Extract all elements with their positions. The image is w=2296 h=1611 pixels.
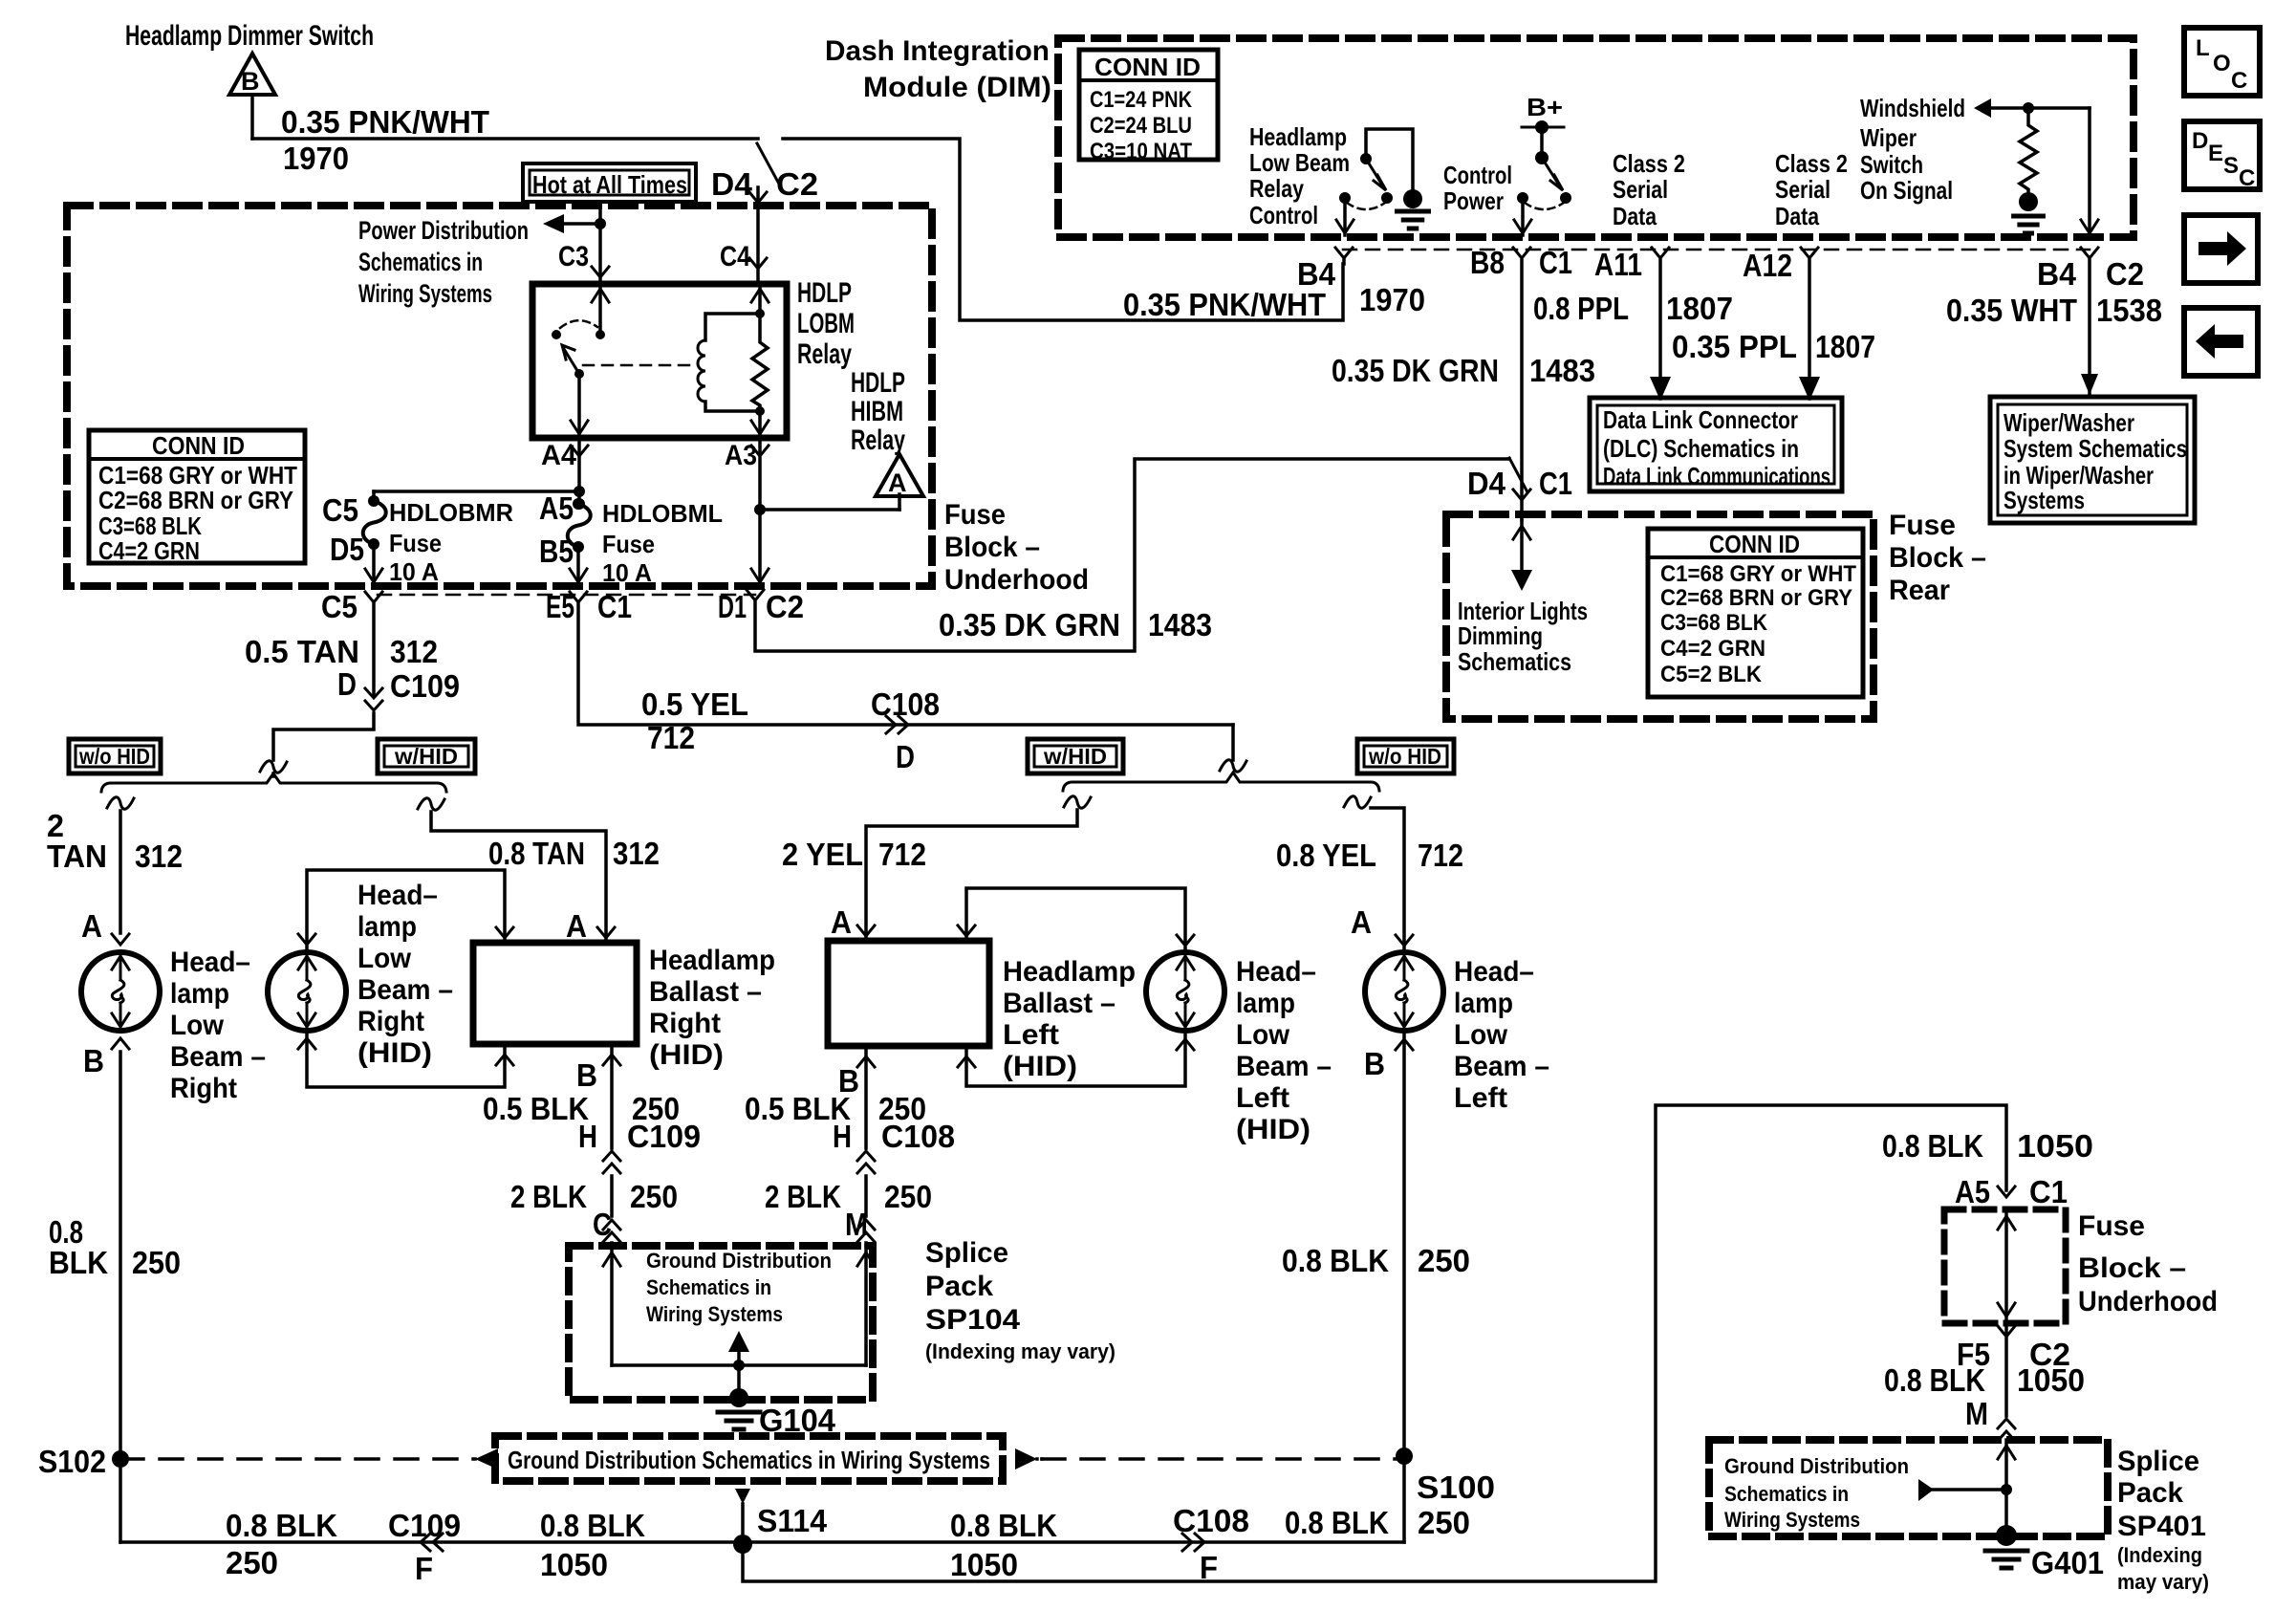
svg-text:Headlamp Dimmer Switch: Headlamp Dimmer Switch <box>125 20 374 52</box>
svg-text:Data Link Connector: Data Link Connector <box>1603 405 1798 434</box>
dashed box: Fuse Block - Rear <box>1446 514 1874 719</box>
svg-text:Head–: Head– <box>1454 956 1534 988</box>
svg-text:312: 312 <box>390 634 438 669</box>
svg-text:Schematics in: Schematics in <box>358 248 483 276</box>
svg-text:C1: C1 <box>1539 466 1572 501</box>
svg-text:0.35 PNK/WHT: 0.35 PNK/WHT <box>1123 287 1326 322</box>
wire: triangle B stem <box>250 95 254 139</box>
svg-text:1970: 1970 <box>283 141 349 176</box>
svg-text:lamp: lamp <box>357 911 417 943</box>
svg-text:Left: Left <box>1454 1082 1507 1114</box>
option brace (left headlamps) <box>1063 773 1379 791</box>
svg-text:w/o HID: w/o HID <box>1368 744 1441 769</box>
svg-text:lamp: lamp <box>1236 988 1295 1019</box>
svg-text:C3=68 BLK: C3=68 BLK <box>1660 610 1768 636</box>
headlamp ballast - left box <box>828 941 989 1046</box>
splice S100 <box>1396 1448 1413 1465</box>
headlamp low beam right (HID) bulb <box>268 952 346 1031</box>
arrow to Power Distribution <box>543 214 564 233</box>
svg-text:C3=10 NAT: C3=10 NAT <box>1090 139 1192 164</box>
svg-text:lamp: lamp <box>170 978 229 1010</box>
ballast right top-left pin to HID bulb <box>496 927 513 938</box>
svg-text:A: A <box>566 908 587 944</box>
pin E5/C1 <box>570 592 587 602</box>
svg-text:250: 250 <box>1418 1505 1470 1540</box>
svg-text:Module (DIM): Module (DIM) <box>863 72 1051 103</box>
wire: 0.5 BLK 250 (left) <box>864 1046 868 1148</box>
svg-text:Fuse: Fuse <box>389 529 442 557</box>
svg-text:Block –: Block – <box>944 532 1040 563</box>
svg-text:0.5 BLK: 0.5 BLK <box>483 1091 589 1126</box>
svg-text:Fuse: Fuse <box>2078 1210 2145 1242</box>
pin A11 <box>1652 248 1669 258</box>
pin B8/C1 (DIM) <box>1513 248 1530 258</box>
relay resistor (parallel) <box>752 314 768 411</box>
svg-text:Ballast –: Ballast – <box>649 976 762 1008</box>
svg-text:Ground Distribution: Ground Distribution <box>1724 1454 1909 1478</box>
relay switch fixed contact <box>552 330 561 339</box>
windshield wiper signal arrow <box>1974 98 1991 118</box>
wire: A3 down to block edge <box>758 438 762 586</box>
svg-text:C2: C2 <box>2106 256 2144 292</box>
svg-text:Wiring Systems: Wiring Systems <box>646 1302 783 1326</box>
svg-text:(HID): (HID) <box>649 1039 724 1071</box>
svg-text:Head–: Head– <box>170 947 250 978</box>
wire: A12 0.35 PPL to DLC <box>1808 258 1811 399</box>
svg-text:Beam –: Beam – <box>170 1041 266 1073</box>
svg-text:CONN ID: CONN ID <box>152 431 245 460</box>
svg-text:(HID): (HID) <box>357 1037 432 1069</box>
svg-text:H: H <box>833 1119 852 1154</box>
svg-text:2 BLK: 2 BLK <box>510 1179 587 1214</box>
ballast left top-right pin to HID bulb <box>958 925 975 936</box>
svg-text:1970: 1970 <box>1359 282 1425 317</box>
svg-text:C1=24 PNK: C1=24 PNK <box>1090 87 1193 113</box>
pin B headlamp right <box>112 1038 129 1049</box>
svg-text:C2=68 BRN or GRY: C2=68 BRN or GRY <box>98 486 293 514</box>
svg-text:A12: A12 <box>1743 248 1792 283</box>
svg-text:B: B <box>241 67 260 96</box>
pin B4/C2 (right) <box>2081 248 2098 258</box>
wire: wiper signal to B4/C2 <box>2088 108 2091 235</box>
pin B4 (DIM) <box>1335 248 1353 258</box>
svg-text:(Indexing: (Indexing <box>2117 1543 2202 1567</box>
relay box: HDLP LOBM Relay <box>532 284 787 438</box>
svg-text:SP401: SP401 <box>2117 1511 2206 1542</box>
svg-text:HIBM: HIBM <box>851 396 903 427</box>
wire: 0.5 TAN down <box>372 602 376 695</box>
legend box DESC <box>2184 121 2260 189</box>
wire: B headlamp right down to S102 <box>119 1052 122 1542</box>
svg-text:C4=2 GRN: C4=2 GRN <box>1660 636 1765 662</box>
svg-text:Power Distribution: Power Distribution <box>358 216 529 245</box>
relay coil output to A3 <box>758 411 762 438</box>
svg-text:0.35 DK GRN: 0.35 DK GRN <box>1332 353 1499 388</box>
option box: w/HID (left) <box>1028 739 1123 773</box>
option box: w/HID <box>378 739 475 773</box>
svg-text:Fuse: Fuse <box>602 530 655 558</box>
dashed box: Splice Pack SP401 <box>1709 1440 2108 1536</box>
svg-text:Right: Right <box>170 1073 237 1104</box>
svg-text:Left: Left <box>1236 1082 1289 1114</box>
wire: PNK/WHT right segment to DIM B4 <box>783 139 1343 320</box>
dashed box: Ground Distribution Schematics in Wiring Systems <box>495 1436 1003 1481</box>
pin A12 <box>1801 248 1818 258</box>
svg-text:Dimming: Dimming <box>1458 621 1543 650</box>
svg-text:Control: Control <box>1249 201 1318 229</box>
arrow to S100 <box>1015 1448 1037 1469</box>
svg-text:2 YEL: 2 YEL <box>782 837 863 872</box>
headlamp low beam - left bulb <box>1365 952 1443 1031</box>
svg-text:Control: Control <box>1443 161 1512 189</box>
svg-text:Head–: Head– <box>1236 956 1316 988</box>
svg-text:0.35 WHT: 0.35 WHT <box>1946 293 2077 328</box>
svg-text:C1: C1 <box>1539 245 1572 280</box>
svg-text:Block –: Block – <box>2078 1252 2186 1284</box>
inline connector D4/C1 slash <box>1509 458 1527 490</box>
ground G401 <box>1996 1525 2017 1546</box>
svg-text:Underhood: Underhood <box>944 564 1089 596</box>
pin F5/C2 <box>1998 1326 2015 1337</box>
splice S114 <box>733 1535 752 1554</box>
wire: w/HID branch (0.8 TAN 312) <box>418 798 444 810</box>
pin B ballast left <box>857 1056 875 1067</box>
wire: A11 0.8 PPL to DLC <box>1658 258 1662 399</box>
svg-text:312: 312 <box>613 836 660 871</box>
svg-text:Low: Low <box>170 1010 225 1041</box>
wire: 0.35 PNK/WHT horizontal run <box>252 137 758 141</box>
SP401 internal wire <box>2004 1440 2008 1530</box>
svg-text:(Indexing may vary): (Indexing may vary) <box>925 1339 1116 1363</box>
svg-text:Left: Left <box>1003 1019 1059 1051</box>
option box: w/o HID (left) <box>1357 739 1454 773</box>
svg-text:Systems: Systems <box>2004 486 2085 514</box>
svg-text:Data: Data <box>1613 202 1657 230</box>
svg-text:B: B <box>83 1043 104 1078</box>
svg-text:L: L <box>2196 35 2210 61</box>
headlamp low beam - right bulb <box>81 952 160 1031</box>
svg-text:M: M <box>845 1207 868 1242</box>
svg-text:Pack: Pack <box>2117 1477 2183 1509</box>
svg-text:may vary): may vary) <box>2117 1570 2209 1594</box>
svg-text:(HID): (HID) <box>1236 1114 1310 1145</box>
headlamp ballast - right box <box>473 943 637 1044</box>
interior lights dimming arrow <box>1520 520 1524 570</box>
svg-text:Low: Low <box>1236 1019 1290 1051</box>
svg-text:1050: 1050 <box>2017 1128 2093 1164</box>
wire: HID right bulb return to ballast <box>298 1038 315 1049</box>
svg-text:712: 712 <box>1418 838 1463 873</box>
svg-text:System Schematics: System Schematics <box>2004 434 2187 463</box>
svg-text:S114: S114 <box>757 1503 828 1538</box>
svg-text:Fuse: Fuse <box>944 499 1006 531</box>
conn id table (rear) <box>1648 529 1863 697</box>
svg-text:C2: C2 <box>776 166 818 202</box>
svg-text:w/o HID: w/o HID <box>78 744 150 769</box>
svg-text:Headlamp: Headlamp <box>1249 122 1347 151</box>
svg-text:D: D <box>896 739 915 774</box>
svg-text:A: A <box>81 908 102 944</box>
svg-text:Beam –: Beam – <box>357 974 453 1006</box>
svg-text:B+: B+ <box>1527 93 1563 121</box>
svg-text:C3: C3 <box>558 241 589 272</box>
svg-text:712: 712 <box>878 837 926 872</box>
dashed box: Fuse Block - Underhood (small) <box>1944 1209 2066 1323</box>
svg-text:A5: A5 <box>539 490 574 526</box>
svg-text:C5: C5 <box>321 589 357 624</box>
conn id table (DIM) <box>1079 50 1218 160</box>
svg-text:Schematics in: Schematics in <box>646 1275 771 1299</box>
svg-text:0.8 BLK: 0.8 BLK <box>1884 1362 1985 1398</box>
svg-text:Power: Power <box>1443 186 1504 215</box>
svg-text:0.8 BLK: 0.8 BLK <box>1882 1128 1983 1164</box>
svg-text:Hot at All Times: Hot at All Times <box>532 170 687 199</box>
wire: A4 to fuses <box>577 438 581 504</box>
svg-text:Ballast –: Ballast – <box>1003 988 1116 1019</box>
svg-text:2 BLK: 2 BLK <box>765 1179 841 1214</box>
svg-text:10 A: 10 A <box>602 558 652 587</box>
wire: 0.5 YEL 712 from E5 <box>578 602 1233 725</box>
wire: HID left bulb return to ballast <box>1177 1039 1194 1050</box>
svg-text:Beam –: Beam – <box>1454 1051 1549 1082</box>
svg-text:On Signal: On Signal <box>1860 176 1953 205</box>
svg-text:1538: 1538 <box>2096 293 2162 328</box>
svg-text:Fuse: Fuse <box>1889 510 1956 541</box>
svg-text:C4: C4 <box>720 241 750 272</box>
relay coil branch from C4 <box>758 284 762 314</box>
wire: w/o HID left branch (0.8 YEL 712) <box>1344 796 1371 808</box>
svg-text:Wiring Systems: Wiring Systems <box>1724 1508 1860 1532</box>
svg-text:Wiper: Wiper <box>1860 123 1917 152</box>
svg-text:B: B <box>576 1057 597 1093</box>
svg-text:M: M <box>1965 1396 1988 1431</box>
wire: B5 to block edge <box>576 547 580 586</box>
svg-text:Pack: Pack <box>925 1271 993 1302</box>
wire: 0.8 BLK 250 (left headlamp return) <box>1402 1031 1406 1542</box>
svg-text:H: H <box>578 1119 597 1154</box>
svg-text:C5=2 BLK: C5=2 BLK <box>1660 662 1763 687</box>
box: Hot at All Times <box>523 163 696 202</box>
svg-text:0.8 BLK: 0.8 BLK <box>1285 1505 1389 1540</box>
svg-text:A: A <box>888 468 907 497</box>
svg-text:F: F <box>415 1551 433 1586</box>
svg-text:C: C <box>2231 68 2247 94</box>
conn id table (underhood) <box>89 430 305 563</box>
svg-text:C1=68 GRY or WHT: C1=68 GRY or WHT <box>1660 561 1856 587</box>
svg-text:0.5 TAN: 0.5 TAN <box>245 634 359 669</box>
svg-text:A11: A11 <box>1594 247 1642 282</box>
relay switch common feed (from C3) <box>598 284 602 335</box>
svg-text:(HID): (HID) <box>1003 1051 1077 1082</box>
connector row line (thin dashed) <box>378 594 755 597</box>
svg-text:Low: Low <box>357 943 412 974</box>
legend box arrow right <box>2184 215 2258 283</box>
wire: to w/o-w HID split (right side) <box>273 713 374 760</box>
svg-text:0.35 PNK/WHT: 0.35 PNK/WHT <box>281 104 489 140</box>
pin D1/C2 <box>747 590 764 600</box>
svg-text:1050: 1050 <box>2017 1362 2085 1398</box>
svg-text:C5: C5 <box>322 492 358 528</box>
wire: B8 output <box>1521 204 1525 235</box>
svg-text:Relay: Relay <box>1249 174 1304 203</box>
svg-text:B: B <box>1364 1046 1385 1081</box>
svg-text:A: A <box>831 904 852 940</box>
svg-text:250: 250 <box>630 1179 678 1214</box>
svg-text:0.8 BLK: 0.8 BLK <box>950 1508 1057 1543</box>
svg-text:A3: A3 <box>725 440 757 471</box>
box: Wiper/Washer System reference <box>1990 397 2195 523</box>
svg-text:lamp: lamp <box>1454 988 1513 1019</box>
svg-text:HDLOBML: HDLOBML <box>602 499 723 528</box>
svg-text:Low Beam: Low Beam <box>1249 148 1350 177</box>
svg-text:Ground Distribution Schematics: Ground Distribution Schematics in Wiring… <box>508 1446 990 1474</box>
ground rail (lower) to right riser <box>743 1105 2006 1581</box>
relay switch travel arc (dashed) <box>560 320 597 328</box>
svg-text:C1: C1 <box>597 589 632 624</box>
svg-text:0.8 BLK: 0.8 BLK <box>226 1508 337 1543</box>
wire: C3 feed from Hot at All Times <box>598 206 602 284</box>
svg-text:E5: E5 <box>546 589 574 624</box>
svg-text:LOBM: LOBM <box>797 308 855 339</box>
svg-text:w/HID: w/HID <box>1043 744 1107 769</box>
svg-text:C109: C109 <box>627 1119 701 1154</box>
svg-text:Underhood: Underhood <box>2078 1286 2218 1317</box>
svg-text:0.35 PPL: 0.35 PPL <box>1672 329 1797 364</box>
svg-text:1050: 1050 <box>950 1547 1018 1582</box>
svg-text:D4: D4 <box>1467 466 1506 501</box>
svg-text:0.8 PPL: 0.8 PPL <box>1533 291 1629 326</box>
svg-text:1483: 1483 <box>1529 353 1595 388</box>
option box: w/o HID <box>69 739 161 773</box>
svg-text:C108: C108 <box>871 686 940 722</box>
svg-text:Beam –: Beam – <box>1236 1051 1332 1082</box>
wire: D5 to block edge <box>372 544 376 586</box>
relay switch arm <box>564 349 579 374</box>
svg-text:Head–: Head– <box>357 880 438 911</box>
inline connector D4/C2 slash <box>757 143 781 187</box>
box: Data Link Connector reference <box>1590 398 1842 491</box>
dashed box: Dash Integration Module <box>1058 38 2134 237</box>
svg-text:B8: B8 <box>1470 245 1505 280</box>
svg-text:D: D <box>2192 128 2208 154</box>
svg-text:0.8 TAN: 0.8 TAN <box>488 836 585 871</box>
svg-text:S100: S100 <box>1417 1469 1495 1505</box>
svg-text:Class 2: Class 2 <box>1775 149 1848 178</box>
svg-text:250: 250 <box>1418 1243 1470 1278</box>
ground rail (upper) <box>120 1540 1404 1544</box>
svg-text:712: 712 <box>647 720 695 755</box>
svg-text:Dash Integration: Dash Integration <box>825 35 1050 67</box>
relay mechanical link (dashed) <box>583 364 690 367</box>
svg-text:250: 250 <box>884 1179 932 1214</box>
svg-text:G401: G401 <box>2031 1545 2104 1580</box>
svg-text:(DLC) Schematics in: (DLC) Schematics in <box>1603 434 1799 463</box>
svg-text:C2=68 BRN or GRY: C2=68 BRN or GRY <box>1660 585 1852 611</box>
svg-text:TAN: TAN <box>47 838 107 874</box>
svg-text:BLK: BLK <box>49 1245 108 1280</box>
legend box arrow left <box>2184 308 2258 376</box>
svg-text:Relay: Relay <box>797 338 852 370</box>
dashed box: Fuse Block - Underhood (large) <box>67 206 932 586</box>
dashed box: Splice Pack SP104 <box>569 1246 873 1400</box>
wire: down to left split <box>1231 725 1235 760</box>
svg-text:Schematics: Schematics <box>1458 647 1571 676</box>
relay switch output to A4 <box>577 374 581 438</box>
svg-text:HDLP: HDLP <box>851 367 905 399</box>
svg-text:O: O <box>2213 51 2231 76</box>
resistor: wiper switch pull-down <box>2020 108 2037 193</box>
svg-text:Relay: Relay <box>851 425 905 456</box>
ground G104 <box>737 1365 741 1394</box>
wire: B8 0.35 DK GRN 1483 <box>1520 258 1524 512</box>
svg-text:CONN ID: CONN ID <box>1094 53 1201 81</box>
svg-text:1483: 1483 <box>1148 607 1212 642</box>
fuse HDLOBML <box>573 498 584 510</box>
connector row dashed line (DIM C1/C2) <box>1343 249 2090 251</box>
SP104 branch arrow <box>728 1331 749 1352</box>
wire: w/HID left branch (2 YEL 712) <box>1064 796 1091 808</box>
svg-text:1807: 1807 <box>1666 291 1733 326</box>
svg-text:A4: A4 <box>541 440 576 471</box>
svg-text:Wiring Systems: Wiring Systems <box>358 279 492 308</box>
svg-text:Wiper/Washer: Wiper/Washer <box>2004 408 2134 437</box>
triangle A: HDLP HIBM Relay <box>760 508 899 512</box>
svg-text:Class 2: Class 2 <box>1613 149 1685 178</box>
svg-text:B5: B5 <box>539 533 574 569</box>
svg-text:0.8 BLK: 0.8 BLK <box>540 1508 645 1543</box>
svg-text:250: 250 <box>226 1545 278 1580</box>
svg-text:Headlamp: Headlamp <box>649 945 775 976</box>
svg-text:Schematics in: Schematics in <box>1724 1482 1849 1506</box>
svg-text:312: 312 <box>135 838 183 874</box>
svg-text:1807: 1807 <box>1815 329 1875 364</box>
svg-text:Data: Data <box>1775 202 1819 230</box>
legend box LOC <box>2184 28 2260 96</box>
svg-text:HDLP: HDLP <box>797 277 852 309</box>
svg-text:C: C <box>2239 165 2255 191</box>
svg-text:250: 250 <box>132 1245 181 1280</box>
svg-text:Block –: Block – <box>1889 542 1986 574</box>
SP104 internal wires <box>610 1246 614 1365</box>
svg-text:A5: A5 <box>1955 1174 1990 1209</box>
svg-text:Data Link Communications: Data Link Communications <box>1603 462 1830 490</box>
svg-text:Serial: Serial <box>1775 175 1830 204</box>
pin A5 label <box>574 498 585 510</box>
ground (wiper switch) <box>2019 192 2038 211</box>
svg-text:Rear: Rear <box>1889 575 1950 606</box>
svg-text:SP104: SP104 <box>925 1304 1020 1336</box>
svg-text:Right: Right <box>357 1006 424 1037</box>
svg-text:Windshield: Windshield <box>1860 94 1965 122</box>
S114 arrow from ground distribution box <box>735 1489 750 1504</box>
wire: w/o HID branch (2 TAN 312) <box>107 797 134 809</box>
option brace (right headlamps) <box>101 773 446 792</box>
svg-text:S102: S102 <box>38 1444 106 1479</box>
pin B ballast right <box>603 1055 620 1065</box>
svg-text:D4: D4 <box>711 166 753 202</box>
svg-text:CONN ID: CONN ID <box>1709 530 1800 558</box>
svg-text:0.8 YEL: 0.8 YEL <box>1276 838 1376 873</box>
svg-text:w/HID: w/HID <box>394 744 458 769</box>
svg-text:C108: C108 <box>1173 1503 1249 1538</box>
wire: 0.8 BLK 1050 to SP401 <box>2004 1323 2008 1416</box>
svg-text:C2=24 BLU: C2=24 BLU <box>1090 113 1192 139</box>
svg-text:D1: D1 <box>718 589 747 624</box>
svg-text:Switch: Switch <box>1860 150 1923 179</box>
headlamp low beam left (HID) bulb <box>1146 952 1224 1031</box>
svg-text:Right: Right <box>649 1008 721 1039</box>
wire: B4/C2 0.35 WHT to wiper reference <box>2088 258 2091 393</box>
